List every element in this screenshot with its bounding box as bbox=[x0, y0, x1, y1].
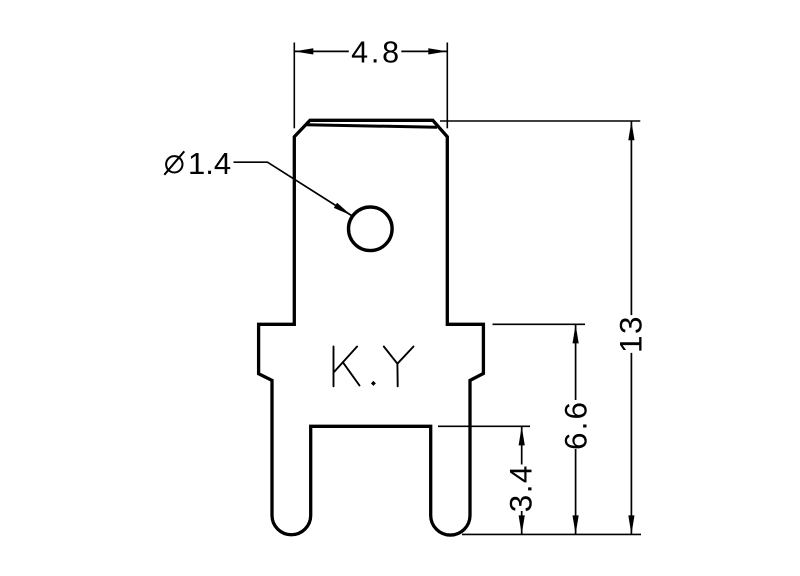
dimension line 4.8 bbox=[294, 50, 447, 52]
arrow 13 down bbox=[628, 515, 634, 534]
marking dot bbox=[371, 381, 376, 386]
extension line shoulder (6.6 top) bbox=[493, 323, 586, 325]
arrow 3.4 down bbox=[519, 515, 525, 534]
svg-text:6.6: 6.6 bbox=[558, 400, 594, 450]
hole circle bbox=[349, 207, 393, 251]
leader line for hole bbox=[234, 162, 352, 215]
svg-text:13: 13 bbox=[613, 315, 649, 353]
svg-text:4.8: 4.8 bbox=[351, 36, 402, 70]
tab tip bevel line bbox=[306, 125, 437, 127]
arrow 3.4 up bbox=[519, 426, 525, 445]
leader arrowhead bbox=[334, 203, 352, 216]
svg-text:3.4: 3.4 bbox=[503, 464, 539, 512]
dimension line 6.6 bbox=[575, 324, 577, 534]
arrow 4.8 right bbox=[428, 48, 447, 54]
extension line bottom bbox=[462, 533, 641, 535]
extension line crotch (3.4 top) bbox=[438, 425, 530, 427]
extension line 13 top bbox=[440, 120, 640, 122]
diameter symbol bbox=[164, 151, 184, 175]
arrow 13 up bbox=[628, 121, 634, 140]
arrow 6.6 up bbox=[573, 324, 579, 343]
svg-text:1.4: 1.4 bbox=[188, 146, 231, 181]
dimension line 3.4 bbox=[521, 426, 523, 534]
extension line 4.8 right bbox=[446, 43, 448, 129]
arrow 4.8 left bbox=[294, 48, 313, 54]
marking text K.Y bbox=[334, 347, 414, 387]
arrow 6.6 down bbox=[573, 515, 579, 534]
dimension line 13 bbox=[630, 121, 632, 534]
terminal body outline bbox=[259, 120, 484, 535]
extension line 4.8 left bbox=[293, 43, 295, 129]
